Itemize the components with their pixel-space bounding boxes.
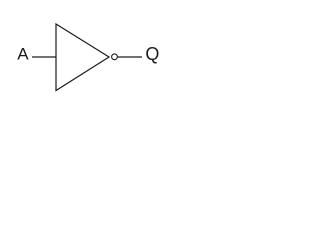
wire (output, bubble to Q): [118, 56, 142, 58]
inversion bubble: [112, 54, 118, 60]
inverter U1 (NOT gate triangle): [56, 24, 109, 91]
wire (input, A to gate): [32, 56, 56, 58]
svg-text:A: A: [17, 45, 29, 64]
svg-text:Q: Q: [145, 44, 159, 64]
